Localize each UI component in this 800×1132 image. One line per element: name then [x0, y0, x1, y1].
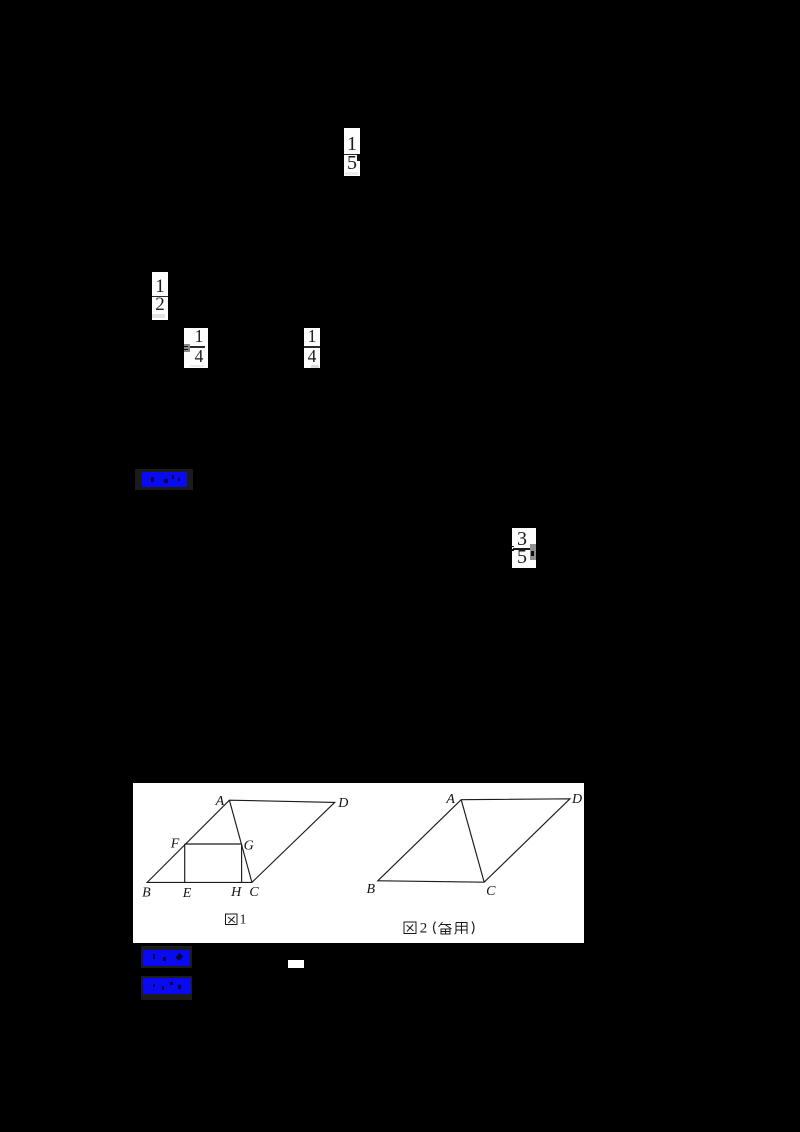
shadow strip 1/4 a	[190, 365, 204, 368]
blue label 3	[141, 976, 192, 1001]
figure 2 diagonal AC	[461, 800, 484, 883]
shadow strip 1/2	[152, 314, 165, 318]
用	[455, 923, 468, 935]
figure 1 rectangle FGHE	[185, 843, 242, 845]
svg-text:E: E	[182, 886, 192, 901]
equals mark left inside 3/5	[511, 546, 514, 548]
white dash	[288, 960, 304, 968]
figure 2 parallelogram ABCD	[378, 799, 570, 882]
备	[439, 922, 452, 934]
blue label 1	[135, 469, 193, 490]
caption 图2（备用）	[404, 922, 416, 934]
svg-text:1: 1	[240, 913, 247, 928]
blue label 2	[141, 946, 192, 969]
svg-text:C: C	[249, 885, 259, 900]
svg-text:G: G	[244, 839, 254, 854]
svg-text:D: D	[571, 792, 582, 807]
gray patch right of 3/5	[530, 544, 537, 560]
svg-text:B: B	[142, 886, 151, 901]
shadow strip 1/5	[345, 172, 358, 175]
svg-text:D: D	[337, 796, 348, 811]
figure 1 parallelogram ABCD	[147, 800, 335, 882]
figure 1 diagonal AC	[229, 800, 252, 882]
fraction 1/4 b	[304, 328, 320, 368]
svg-text:A: A	[215, 794, 225, 809]
fraction 3/5	[512, 528, 536, 568]
svg-text:A: A	[445, 792, 455, 807]
fraction 1/4 a	[184, 328, 208, 368]
figure panel	[133, 783, 584, 943]
svg-text:2: 2	[420, 921, 428, 937]
svg-text:F: F	[170, 837, 180, 852]
svg-text:B: B	[367, 882, 376, 897]
notch right of 1/5	[357, 154, 360, 161]
fraction 1/2	[152, 272, 168, 320]
equals mark left of 1/4 a	[184, 344, 190, 352]
caption 图1	[226, 914, 238, 925]
svg-text:H: H	[230, 885, 242, 900]
fraction 1/5	[344, 128, 360, 176]
svg-text:C: C	[486, 884, 496, 899]
shadow strip 1/4 b	[311, 365, 319, 368]
